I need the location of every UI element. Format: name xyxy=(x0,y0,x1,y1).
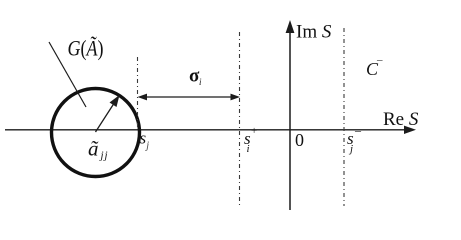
svg-text:0: 0 xyxy=(295,130,304,150)
svg-text:Re S: Re S xyxy=(383,109,419,130)
svg-text:–: – xyxy=(354,123,362,137)
svg-text:ã: ã xyxy=(88,137,99,161)
leader line from G(A~) to circle xyxy=(49,42,86,107)
Gershgorin circle G(A~) xyxy=(52,89,140,177)
svg-text:sj: sj xyxy=(140,129,150,152)
real axis (Re S) xyxy=(5,126,416,134)
dash-dot line at s_i^+ xyxy=(239,32,241,207)
svg-text:–: – xyxy=(376,54,383,66)
dash-dot line at s_j^- xyxy=(343,28,345,206)
sigma double arrow xyxy=(138,94,241,101)
svg-text:Im S: Im S xyxy=(296,22,332,43)
svg-text:i: i xyxy=(199,77,202,87)
radius arrow inside circle xyxy=(96,95,120,132)
dash-dot line at s_j (right edge of circle) xyxy=(137,57,139,127)
svg-text:+: + xyxy=(251,125,257,137)
svg-text:jj: jj xyxy=(99,150,109,162)
svg-text:G(Ã): G(Ã) xyxy=(68,35,104,61)
imaginary axis (Im S) xyxy=(286,20,295,210)
svg-text:i: i xyxy=(247,143,250,155)
